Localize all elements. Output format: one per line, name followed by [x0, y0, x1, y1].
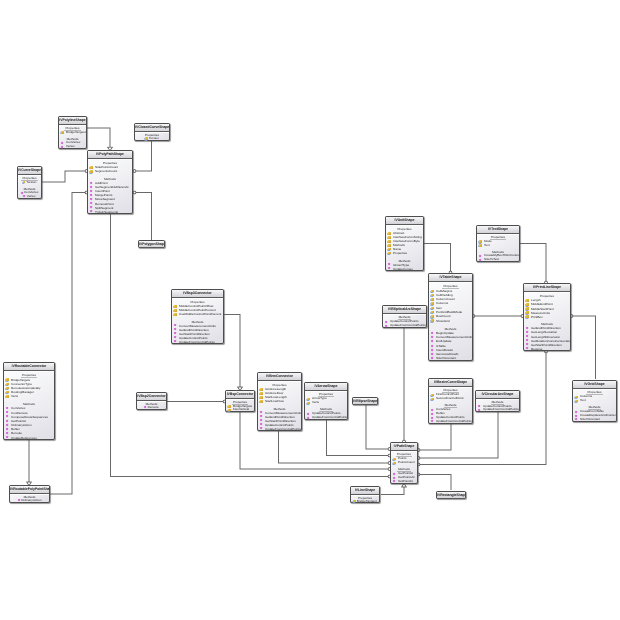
class box IVTextShape [476, 225, 520, 262]
wire IVArrowShape to IVPathShape left [327, 420, 391, 457]
class box IVEllipticalArcShape [382, 305, 427, 328]
class box IVBezierCurveShape [428, 378, 473, 424]
wire IVPathShape to IVRectangleShape top [417, 473, 451, 490]
class box IVPrintLineShape [523, 283, 571, 351]
class box IVPathShape [390, 442, 418, 484]
wire IVUnitShape to IVTableShape top [424, 244, 452, 274]
class box IVCircularArcShape [475, 390, 520, 412]
class box IVRoutablePolyPointShape [9, 485, 50, 503]
wire IVPolylineShape to IVPolyPathShape top [87, 128, 112, 151]
class box IVClosedCurveShape [134, 123, 170, 141]
wire IVBrmConnector to IVPathShape left [279, 431, 391, 464]
wire IVRoutableConnector to IVRoutablePolyPointShape top [27, 440, 32, 486]
wire IVTextShape to IVPrintLineShape top [520, 244, 547, 284]
class box IVBrmConnector [257, 372, 302, 431]
class box IVBsp3Connector [171, 289, 224, 344]
class box IVCurveShape [17, 166, 42, 199]
wire IVEllipticalArcShape to IVPathShape top [403, 328, 406, 443]
class box IVTableShape [428, 273, 473, 361]
wire IVPrintLineShape to IVGridShape top [570, 315, 595, 379]
class box IVRoutableConnector [3, 362, 55, 440]
wire IVClosedCurveShape to IVPolyPathShape right [133, 141, 151, 172]
wire IVRoutablePolyPointShape to IVPolyPathShape left [50, 191, 88, 494]
class box IVPolylineShape [58, 116, 87, 149]
wire IVPathShape to IVCircularArcShape bottom [417, 412, 498, 459]
class box IVGridShape [572, 380, 617, 422]
wire IVPolygonShape to IVPolyPathShape right [133, 191, 151, 240]
wire IVTableShape to IVPrintLineShape left [472, 315, 524, 318]
wire IVBspConnector to IVPathShape left [240, 412, 391, 470]
class box IVPolygonShape [138, 240, 165, 248]
wire IVPathShape to IVBezierCurveShape bottom [417, 424, 451, 451]
class box IVUnitShape [385, 216, 424, 271]
wire IVBsp2Connector to IVBspConnector left [167, 400, 226, 403]
class box IVArrowShape [304, 382, 348, 420]
wire IVPathShape to IVPrintLineShape bottom [417, 350, 547, 466]
class box IVPolyPathShape [87, 150, 133, 214]
wire IVEllipseShape to IVPathShape left [366, 405, 391, 450]
class box IVLineShape [350, 486, 380, 503]
wire IVBsp3Connector to IVBspConnector top [224, 315, 242, 391]
class box IVRectangleShape [436, 491, 466, 499]
wire IVPathShape to IVLineShape [381, 483, 406, 494]
class box IVBsp2Connector [136, 392, 167, 410]
class box IVEllipseShape [352, 397, 378, 405]
class box IVBspConnector [225, 390, 255, 412]
wire IVPolyPathShape to IVPathShape left [111, 214, 391, 478]
wire IVCurveShape to IVPolyPathShape left [42, 170, 88, 182]
